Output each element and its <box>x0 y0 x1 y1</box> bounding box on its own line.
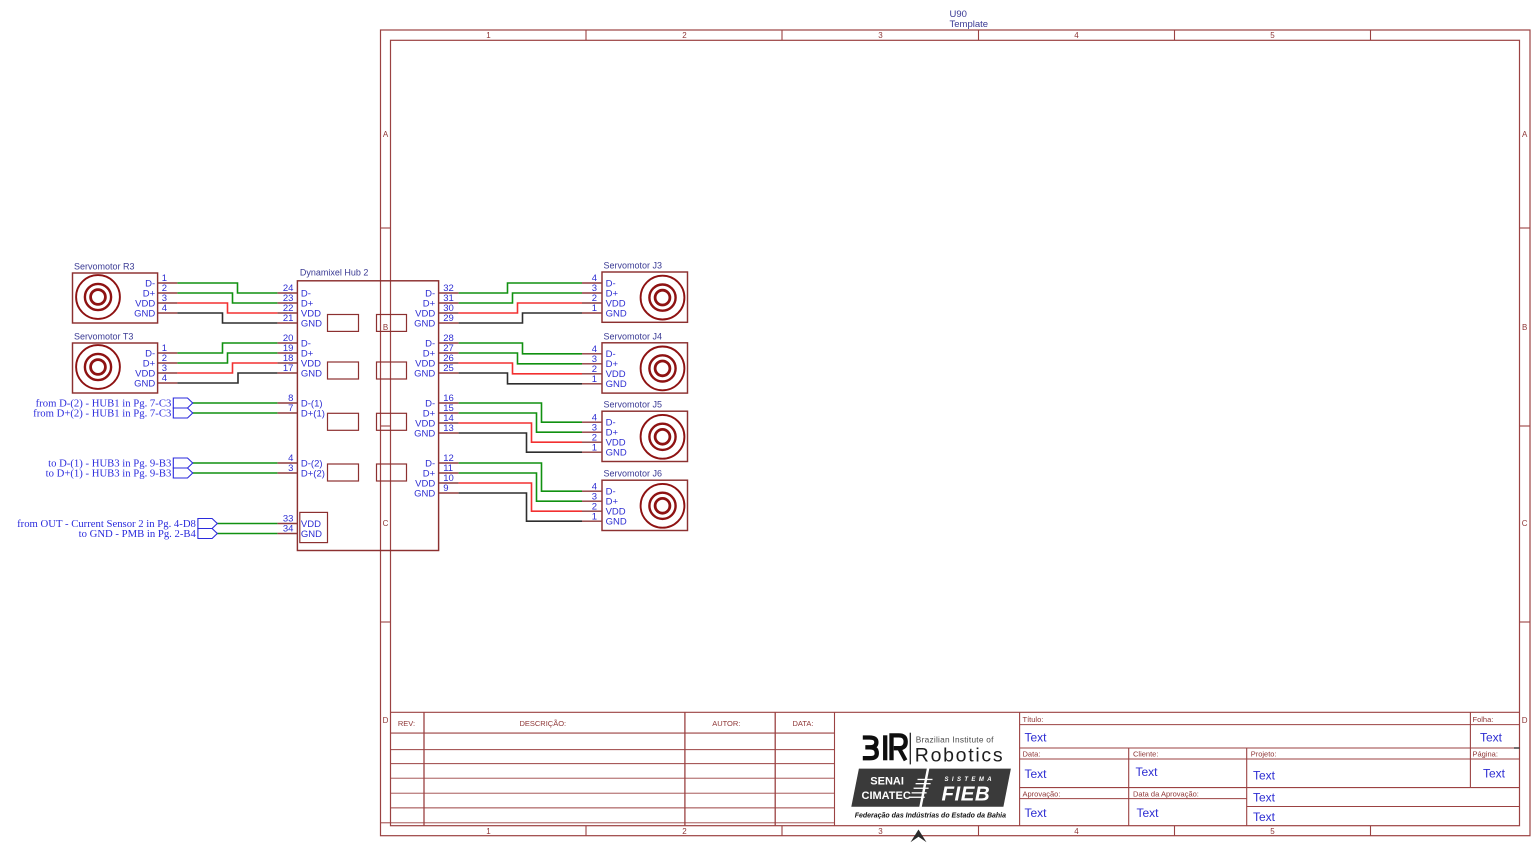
row letters left <box>383 130 389 725</box>
svg-text:C: C <box>1522 519 1528 528</box>
wire global label to HUB pin3 <box>193 472 278 474</box>
wire HUB pin13 to J5 pin1 <box>459 433 582 452</box>
title block black tick <box>1514 747 1520 749</box>
svg-text:GND: GND <box>134 308 155 319</box>
title block field values <box>1025 730 1506 824</box>
svg-text:Servomotor J3: Servomotor J3 <box>604 261 663 271</box>
svg-text:GND: GND <box>414 368 435 379</box>
R3 pin names <box>134 278 156 319</box>
T3 pin numbers <box>162 343 167 384</box>
svg-text:5: 5 <box>1270 827 1275 836</box>
servomotor R3 <box>73 261 158 323</box>
svg-text:Data:: Data: <box>1023 750 1041 759</box>
wire R3 pin1 to HUB pin24 <box>177 283 277 293</box>
svg-text:Text: Text <box>1253 768 1276 782</box>
svg-text:Robotics: Robotics <box>915 744 1004 766</box>
row ticks left <box>381 228 391 622</box>
global label from D-(2) - HUB1 in Pg. 7-C3 <box>36 398 193 410</box>
svg-text:A: A <box>1522 130 1528 139</box>
svg-text:Text: Text <box>1136 765 1159 779</box>
wire HUB pin16 to J5 pin4 <box>459 403 582 422</box>
servomotor J5 <box>602 400 688 462</box>
hub right pin stubs <box>439 293 459 493</box>
svg-text:1: 1 <box>592 511 597 522</box>
SENAI CIMATEC FIEB logo <box>851 769 1011 807</box>
svg-text:Servomotor J4: Servomotor J4 <box>604 331 663 341</box>
global label to D+(1) - HUB3 in Pg. 9-B3 <box>46 468 193 480</box>
svg-text:Dynamixel Hub 2: Dynamixel Hub 2 <box>300 267 369 277</box>
svg-text:29: 29 <box>443 313 454 324</box>
hub left pin stubs <box>277 293 297 534</box>
row ticks right <box>1520 228 1531 622</box>
svg-text:GND: GND <box>301 368 322 379</box>
J4 pin stubs <box>582 354 602 384</box>
BIR logo mark <box>863 735 906 760</box>
wire global label to HUB pin8 <box>193 402 278 404</box>
wire HUB pin12 to J6 pin4 <box>459 463 582 491</box>
svg-text:25: 25 <box>443 363 454 374</box>
global label to GND - PMB in Pg. 2-B4 <box>79 528 218 540</box>
J3 pin stubs <box>582 283 602 313</box>
wire HUB pin26 to J4 pin2 <box>459 363 582 374</box>
svg-text:13: 13 <box>443 423 454 434</box>
svg-text:D+(1): D+(1) <box>301 408 325 419</box>
title block lines <box>381 712 1520 825</box>
svg-text:Text: Text <box>1137 806 1160 820</box>
svg-text:Servomotor T3: Servomotor T3 <box>74 331 133 341</box>
svg-text:4: 4 <box>1074 31 1079 40</box>
svg-text:REV:: REV: <box>398 719 415 728</box>
svg-text:4: 4 <box>1074 827 1079 836</box>
sheet name U90 Template <box>950 9 989 30</box>
svg-text:GND: GND <box>606 448 627 459</box>
BIR logo divider <box>909 733 911 765</box>
wire global label to HUB pin33 <box>217 523 277 525</box>
wire HUB pin32 to J3 pin4 <box>459 283 582 293</box>
title block header labels <box>398 715 1498 798</box>
servomotor J4 <box>602 331 688 393</box>
svg-text:Cliente:: Cliente: <box>1133 750 1158 759</box>
svg-text:Aprovação:: Aprovação: <box>1023 789 1061 798</box>
svg-text:7: 7 <box>288 403 293 414</box>
J5 pin stubs <box>582 422 602 452</box>
svg-text:34: 34 <box>283 524 294 535</box>
svg-text:Text: Text <box>1483 766 1506 780</box>
svg-text:Servomotor J5: Servomotor J5 <box>604 400 663 410</box>
svg-text:3: 3 <box>878 31 883 40</box>
svg-text:Template: Template <box>950 19 989 30</box>
svg-text:2: 2 <box>682 827 687 836</box>
J6 pin stubs <box>582 491 602 521</box>
svg-text:Folha:: Folha: <box>1473 715 1494 724</box>
J5 pin numbers <box>592 412 597 453</box>
wire R3 pin3 to HUB pin22 <box>177 303 277 313</box>
row letters right <box>1522 130 1528 725</box>
global label from D+(2) - HUB1 in Pg. 7-C3 <box>33 408 193 420</box>
BIR logo wordmark <box>915 734 1004 766</box>
svg-text:1: 1 <box>486 31 491 40</box>
svg-text:Brazilian Institute of: Brazilian Institute of <box>916 734 994 744</box>
svg-text:4: 4 <box>162 303 167 314</box>
hub internal graphic rectangles <box>300 315 407 543</box>
J3 pin numbers <box>592 273 597 314</box>
T3 pin names <box>134 348 156 389</box>
svg-text:GND: GND <box>606 517 627 528</box>
svg-text:5: 5 <box>1270 31 1275 40</box>
svg-text:Página:: Página: <box>1473 750 1498 759</box>
sheet outer border <box>381 30 1531 836</box>
J4 pin names <box>606 349 627 390</box>
svg-text:GND: GND <box>301 529 322 540</box>
wire T3 pin1 to HUB pin20 <box>177 343 277 353</box>
wire HUB pin15 to J5 pin3 <box>459 413 582 432</box>
J6 pin names <box>606 487 627 528</box>
svg-text:Text: Text <box>1253 810 1276 824</box>
svg-text:Text: Text <box>1025 806 1048 820</box>
J3 pin names <box>606 278 627 319</box>
wire R3 pin4 to HUB pin21 <box>177 313 277 323</box>
svg-text:AUTOR:: AUTOR: <box>712 719 740 728</box>
svg-text:GND: GND <box>134 378 155 389</box>
svg-text:Text: Text <box>1025 730 1048 744</box>
connector hub U2 Dynamixel Hub 2 <box>297 267 438 550</box>
svg-text:to GND - PMB in Pg. 2-B4: to GND - PMB in Pg. 2-B4 <box>79 528 197 540</box>
svg-text:3: 3 <box>878 827 883 836</box>
column ticks top <box>586 30 1371 40</box>
column numbers bottom <box>486 827 1275 836</box>
svg-text:GND: GND <box>414 488 435 499</box>
wire global label to HUB pin7 <box>193 412 278 414</box>
svg-text:DESCRIÇÃO:: DESCRIÇÃO: <box>519 719 566 728</box>
wire HUB pin25 to J4 pin1 <box>459 373 582 384</box>
servomotor J3 <box>602 261 688 323</box>
svg-text:21: 21 <box>283 313 294 324</box>
svg-text:Projeto:: Projeto: <box>1251 750 1277 759</box>
J4 pin numbers <box>592 344 597 385</box>
svg-text:to D+(1) - HUB3 in Pg. 9-B3: to D+(1) - HUB3 in Pg. 9-B3 <box>46 468 172 480</box>
wire global label to HUB pin34 <box>217 533 277 535</box>
svg-text:C: C <box>383 519 389 528</box>
svg-text:2: 2 <box>682 31 687 40</box>
svg-text:GND: GND <box>414 428 435 439</box>
wire HUB pin14 to J5 pin2 <box>459 423 582 442</box>
hub left pin numbers <box>283 283 294 535</box>
column numbers top <box>486 31 1275 40</box>
servomotor T3 <box>73 331 158 393</box>
wire HUB pin11 to J6 pin3 <box>459 473 582 501</box>
svg-text:Federação das Indústrias do Es: Federação das Indústrias do Estado da Ba… <box>855 813 1006 820</box>
svg-text:1: 1 <box>486 827 491 836</box>
svg-text:1: 1 <box>592 374 597 385</box>
wire HUB pin28 to J4 pin4 <box>459 343 582 354</box>
svg-text:Text: Text <box>1253 790 1276 804</box>
servomotor J6 <box>602 469 688 531</box>
wire T3 pin3 to HUB pin18 <box>177 363 277 373</box>
svg-text:Título:: Título: <box>1023 715 1044 724</box>
svg-text:D: D <box>1522 716 1528 725</box>
sheet inner border <box>391 40 1520 825</box>
svg-text:B: B <box>383 323 388 332</box>
hub left pin names <box>301 288 325 540</box>
svg-text:1: 1 <box>592 442 597 453</box>
hub right pin names <box>414 288 436 499</box>
wire global label to HUB pin4 <box>193 462 278 464</box>
svg-text:from D+(2) - HUB1 in Pg. 7-C3: from D+(2) - HUB1 in Pg. 7-C3 <box>33 408 171 420</box>
wire HUB pin30 to J3 pin2 <box>459 303 582 313</box>
svg-text:Text: Text <box>1025 767 1048 781</box>
global label from OUT - Current Sensor 2 in Pg. 4-D8 <box>17 518 217 530</box>
wire HUB pin10 to J6 pin2 <box>459 483 582 511</box>
svg-text:17: 17 <box>283 363 294 374</box>
wire HUB pin27 to J4 pin3 <box>459 353 582 364</box>
svg-text:D: D <box>383 716 389 725</box>
bottom center arrow marker <box>911 830 927 843</box>
svg-text:DATA:: DATA: <box>793 719 814 728</box>
global label to D-(1) - HUB3 in Pg. 9-B3 <box>48 458 193 470</box>
svg-text:Text: Text <box>1480 730 1503 744</box>
column ticks bottom <box>586 826 1371 836</box>
wire HUB pin29 to J3 pin1 <box>459 313 582 323</box>
svg-text:GND: GND <box>606 308 627 319</box>
J6 pin numbers <box>592 481 597 522</box>
wire T3 pin2 to HUB pin19 <box>177 353 277 363</box>
svg-text:D+(2): D+(2) <box>301 468 325 479</box>
svg-text:3: 3 <box>288 463 293 474</box>
R3 pin numbers <box>162 273 167 314</box>
svg-text:GND: GND <box>606 379 627 390</box>
svg-text:Servomotor R3: Servomotor R3 <box>74 261 135 271</box>
svg-text:B: B <box>1522 323 1527 332</box>
svg-text:1: 1 <box>592 303 597 314</box>
wire R3 pin2 to HUB pin23 <box>177 293 277 303</box>
svg-text:GND: GND <box>301 318 322 329</box>
wire T3 pin4 to HUB pin17 <box>177 373 277 383</box>
svg-text:GND: GND <box>414 318 435 329</box>
T3 pin stubs <box>158 353 178 383</box>
svg-text:4: 4 <box>162 373 167 384</box>
hub right pin numbers <box>443 283 454 494</box>
wire HUB pin31 to J3 pin3 <box>459 293 582 303</box>
svg-text:A: A <box>383 130 389 139</box>
wire HUB pin9 to J6 pin1 <box>459 493 582 521</box>
svg-text:Data da Aprovação:: Data da Aprovação: <box>1133 789 1199 798</box>
svg-text:9: 9 <box>443 483 448 494</box>
svg-text:CIMATEC: CIMATEC <box>862 790 911 802</box>
J5 pin names <box>606 418 627 459</box>
svg-text:SENAI: SENAI <box>870 776 904 788</box>
svg-text:FIEB: FIEB <box>942 782 991 805</box>
R3 pin stubs <box>158 283 178 313</box>
svg-text:Servomotor J6: Servomotor J6 <box>604 469 663 479</box>
